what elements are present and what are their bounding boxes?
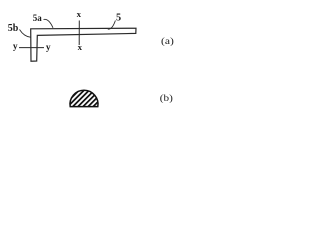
svg-text:(a): (a) [161, 36, 174, 47]
svg-text:x: x [77, 9, 82, 19]
svg-text:5a: 5a [33, 13, 43, 23]
svg-text:5b: 5b [8, 23, 19, 34]
svg-text:y: y [13, 42, 18, 52]
svg-text:y: y [46, 43, 51, 53]
svg-text:x: x [78, 42, 83, 52]
svg-text:5: 5 [116, 13, 121, 24]
svg-text:(b): (b) [160, 93, 173, 104]
